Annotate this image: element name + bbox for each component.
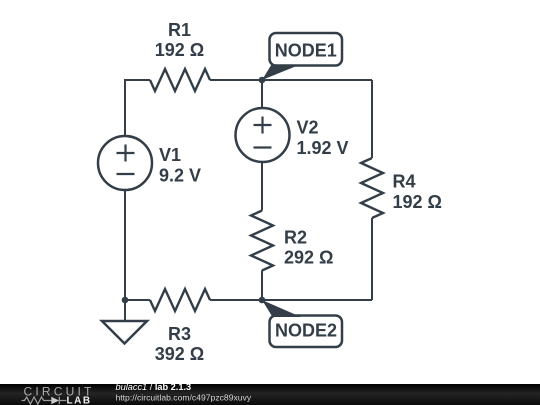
svg-text:292 Ω: 292 Ω xyxy=(284,248,333,268)
resistor R3 value labels xyxy=(155,324,204,364)
svg-text:NODE1: NODE1 xyxy=(275,41,337,61)
node NODE2 flag box xyxy=(270,316,343,348)
wire: R4 bottom to bottom-right corner xyxy=(371,218,373,300)
wire: V1 bottom down to ground junction xyxy=(124,190,126,300)
svg-text:392 Ω: 392 Ω xyxy=(155,344,204,364)
resistor R2 xyxy=(251,211,273,271)
wire: R2 bottom to NODE2 junction xyxy=(261,271,263,301)
ground xyxy=(102,321,147,344)
wire: NODE1 junction down to V2 top xyxy=(261,80,263,108)
voltage source V1 xyxy=(98,136,152,190)
wire: bottom-right corner to R3 right lead xyxy=(210,299,372,301)
wire: R3 left lead to ground junction xyxy=(125,299,150,301)
svg-text:bulacc1 / lab 2.1.3: bulacc1 / lab 2.1.3 xyxy=(116,382,192,392)
svg-text:1.92 V: 1.92 V xyxy=(297,138,349,158)
footer logo resistor-diode glyph xyxy=(22,397,67,405)
node NODE1 flag box xyxy=(270,33,343,66)
resistor R1 xyxy=(150,69,210,91)
svg-text:V2: V2 xyxy=(297,118,319,138)
wire: V2 bottom to R2 top xyxy=(261,162,263,211)
svg-text:NODE2: NODE2 xyxy=(275,320,337,340)
svg-text:R1: R1 xyxy=(168,20,191,40)
resistor R3 xyxy=(150,289,210,311)
svg-text:http://circuitlab.com/c497pzc8: http://circuitlab.com/c497pzc89xuvy xyxy=(116,392,252,402)
node NODE2 flag pointer xyxy=(262,300,301,317)
svg-text:LAB: LAB xyxy=(67,396,92,405)
svg-text:9.2 V: 9.2 V xyxy=(159,166,201,186)
wire: ground lead below junction xyxy=(124,300,126,321)
wire: R1 right lead to top-right corner (through NODE1) xyxy=(210,79,372,81)
svg-text:R3: R3 xyxy=(168,324,191,344)
svg-text:R4: R4 xyxy=(393,172,416,192)
resistor R2 value labels xyxy=(284,228,333,268)
voltage source V2 xyxy=(236,108,290,162)
wire: top-right corner down to R4 top xyxy=(371,80,373,158)
footer bar xyxy=(0,384,540,405)
svg-text:V1: V1 xyxy=(159,145,181,165)
wire: top-left corner from R1 left lead to V1 top xyxy=(125,80,150,136)
junction dot at NODE2 xyxy=(259,297,266,304)
resistor R4 xyxy=(361,158,383,218)
resistor R1 value labels xyxy=(155,20,204,60)
resistor R4 value labels xyxy=(393,172,442,213)
svg-text:192 Ω: 192 Ω xyxy=(393,192,442,212)
junction dot at ground node xyxy=(122,297,129,304)
node NODE1 flag pointer xyxy=(262,65,299,81)
svg-text:R2: R2 xyxy=(284,228,307,248)
svg-text:192 Ω: 192 Ω xyxy=(155,40,204,60)
voltage source V2 value labels xyxy=(297,118,349,159)
voltage source V1 value labels xyxy=(159,145,201,186)
junction dot at NODE1 xyxy=(259,77,266,84)
